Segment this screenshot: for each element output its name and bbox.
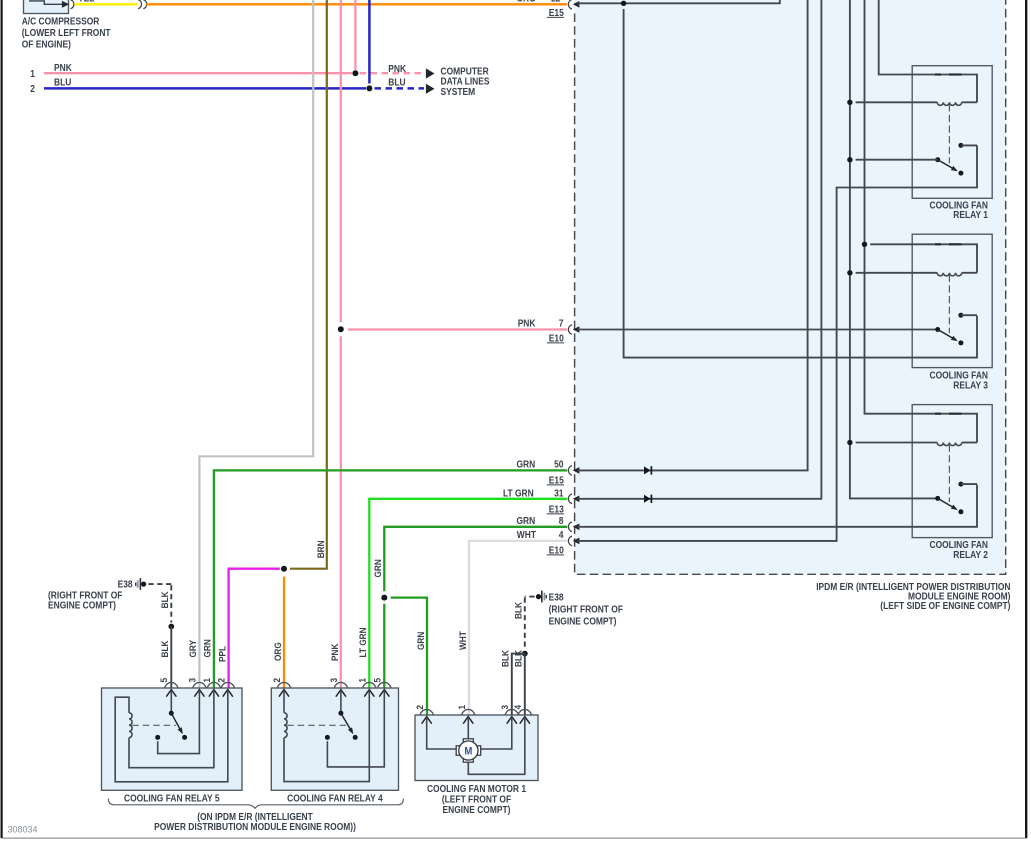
wire WHT pin4 to motor pin1 [469,541,567,715]
motor pin entry x=468.2 [462,709,475,714]
svg-text:PNK: PNK [330,644,341,661]
junction dot GRN [381,595,387,601]
svg-text:ENGINE COMPT): ENGINE COMPT) [443,805,511,816]
svg-text:BLK: BLK [160,591,171,608]
svg-text:7: 7 [559,318,564,329]
svg-text:E38: E38 [118,580,133,591]
svg-text:31: 31 [554,488,564,499]
svg-text:RELAY 1: RELAY 1 [953,210,988,221]
svg-text:POWER DISTRIBUTION MODULE ENGI: POWER DISTRIBUTION MODULE ENGINE ROOM)) [154,822,356,833]
wire relay2 output to GRN8 [578,485,978,527]
svg-text:PNK: PNK [388,64,406,75]
svg-text:BLK: BLK [501,650,512,667]
svg-text:50: 50 [554,459,564,470]
wire BLU pin2 [44,87,366,90]
wire PPL to relay5 pin2 [229,569,280,688]
motor pin entry x=511.8 [505,709,518,714]
svg-text:BRN: BRN [316,540,327,558]
svg-text:BLK: BLK [514,650,525,667]
svg-text:PNK: PNK [54,63,72,74]
wire GRN pin8 to relay4 pin5 and motor pin2 [384,527,567,592]
junction dot PNK pin7 [338,326,344,332]
relay5 coil K5 and staples [115,690,228,782]
svg-text:(LEFT FRONT OF: (LEFT FRONT OF [442,794,511,805]
wire battery feed down to relay3 output rail [624,9,977,358]
relay K2 core bars [935,413,941,415]
wire PNK vertical from top [354,0,356,70]
wire PNK pin1 [44,72,352,74]
wire PNK from top to relay4 pin3 [340,0,342,322]
svg-text:22: 22 [551,0,561,4]
svg-text:WHT: WHT [517,530,536,541]
svg-text:2: 2 [415,705,426,710]
svg-text:(LEFT SIDE OF ENGINE COMPT): (LEFT SIDE OF ENGINE COMPT) [880,601,1010,612]
svg-text:ENGINE COMPT): ENGINE COMPT) [48,601,116,612]
wire LT GRN pin31 to relay4 pin1 [369,499,567,688]
svg-text:2: 2 [217,678,228,683]
svg-text:COOLING FAN MOTOR 1: COOLING FAN MOTOR 1 [427,784,527,795]
relay K3 junction dots on supply rail [847,270,852,275]
wire PNK pin7 branch [348,328,567,330]
wire common supply rail x=849.9 [850,0,938,498]
relay K3 box COOLING FAN RELAY 3 [912,234,992,367]
relay K2 junction dots on supply rail [847,440,852,445]
IPDM E/R block (dashed) [575,0,1006,574]
relay5 pin entry x=171.3 [165,682,178,687]
svg-text:LT GRN: LT GRN [503,488,534,499]
wire relay3 top feed [870,244,977,272]
motor M1 symbol [456,739,481,762]
wire BLK dashed down (right) [525,596,535,598]
wire BLU vertical from top [368,0,371,84]
svg-text:(LOWER LEFT FRONT: (LOWER LEFT FRONT [22,28,111,39]
svg-text:GRY: GRY [188,639,199,657]
relay K1 junction dots on supply rail [847,100,852,105]
svg-text:LT GRN: LT GRN [358,627,369,657]
wire GRN pin50 to relay5 pin1 [214,470,567,688]
relay4 coil-switch link (dashed) [287,724,346,726]
svg-text:PNK: PNK [518,318,536,329]
ground connector E38 left [135,583,137,586]
relay4 coil K4 [283,690,285,713]
junction dot relay3 feed [862,242,867,247]
svg-text:3: 3 [500,705,511,710]
relay K3 core bars [935,243,941,245]
svg-text:ENGINE COMPT): ENGINE COMPT) [549,617,617,628]
dashed BLU to computer data lines [375,87,425,90]
diode on GRN50 rail [644,466,651,474]
relay4 pin entry x=340.9 [334,682,347,687]
svg-text:3: 3 [187,678,198,683]
arrow to computer data lines (PNK) [426,68,435,78]
motor COOLING FAN MOTOR 1 box [415,715,538,781]
relay K2 box COOLING FAN RELAY 2 [912,405,992,538]
relay K1 box COOLING FAN RELAY 1 [912,66,992,199]
relay K3 upper contact [958,313,963,318]
motor pin entry x=524.8 [518,709,531,714]
relay4 pin entry x=284 [277,682,290,687]
page right border [1025,0,1027,838]
svg-text:308034: 308034 [8,824,38,834]
svg-text:ORG: ORG [273,642,284,661]
A/C compressor box [24,0,69,14]
svg-text:1: 1 [30,69,35,80]
svg-text:SYSTEM: SYSTEM [441,87,476,98]
svg-text:2: 2 [30,84,35,95]
relay1 common feed [856,159,938,161]
relay K1 switch pivot [935,157,940,162]
svg-text:1: 1 [457,704,468,709]
relay4 contact to pin5 [325,735,330,740]
border patch at E15 entry [574,0,575,13]
A/C compressor internal wire + arrow [29,1,64,4]
relay K1 upper contact [958,143,963,148]
wire coil feed rail x=864.5 to relay2 [865,0,978,443]
svg-text:A/C COMPRESSOR: A/C COMPRESSOR [22,16,100,27]
relay K1 coil [856,101,938,103]
svg-text:OF ENGINE): OF ENGINE) [22,39,71,50]
brace under relays 4 and 5 [108,799,403,809]
relay4 pin entry x=384.3 [378,682,391,687]
relay K2 upper contact [958,482,963,487]
relay COOLING FAN RELAY 4 box [271,688,398,790]
relay4 switch [340,690,342,713]
relay K1 coil-switch link (dashed) [948,104,950,163]
relay4 pin entry x=369.3 [363,682,376,687]
IPDM top feed wire from E15 pin22 [578,0,780,3]
junction dot PNK [352,70,358,76]
svg-text:GRN: GRN [416,632,427,650]
relay COOLING FAN RELAY 5 box [102,688,243,790]
page bottom rule [3,837,1026,839]
junction dot BLU [366,85,372,91]
wire BLK dashed to junction (left) [149,583,172,585]
svg-text:3: 3 [329,678,340,683]
arrow to computer data lines (BLU) [426,84,435,94]
junction dot BRN/PPL/ORG [281,566,287,572]
svg-text:COOLING FAN RELAY 4: COOLING FAN RELAY 4 [287,793,383,804]
connector pin50 E15 [568,466,572,476]
wire BRN from top [290,0,327,569]
svg-text:GRN: GRN [517,459,536,470]
connector pin31 E13 [568,494,572,504]
relay K2 switch pivot [935,496,940,501]
svg-text:COOLING FAN RELAY 5: COOLING FAN RELAY 5 [124,793,220,804]
wire GRY from top to relay5 pin3 [199,0,313,688]
svg-text:BLU: BLU [388,78,405,89]
diode on LTGRN31 rail [644,495,651,503]
wire relay1 top feed x=878.7 [879,0,977,102]
relay5 pin entry x=227.8 [221,682,234,687]
wire BLK to motor pin4 [524,654,526,715]
svg-text:BLK: BLK [160,640,171,657]
wire LTGRN31 rail (vertical x=821.4) [578,0,822,499]
svg-text:RELAY 3: RELAY 3 [953,380,988,391]
relay K1 core bars [935,73,941,75]
connector ) at A/C compressor output [71,0,74,9]
wire ORG segment [146,3,567,5]
svg-text:E38: E38 [549,592,564,603]
motor pin entry x=426.7 [420,709,433,714]
svg-text:GRN: GRN [373,559,384,577]
inline connector )) [138,0,141,9]
svg-text:ORG: ORG [517,0,537,4]
wire BLK stub to motor pin3 [512,654,525,715]
wire PNK7 to relay3 common [578,329,938,331]
relay5 pin entry x=199.4 [193,682,206,687]
svg-text:GRN: GRN [203,639,214,657]
connector E15 at IPDM [568,0,572,9]
svg-text:M: M [464,745,472,757]
connector pin7 E10 [568,325,572,335]
relay K2 coil-switch link (dashed) [948,445,950,503]
relay K3 coil-switch link (dashed) [948,275,950,333]
svg-text:PPL: PPL [218,646,229,662]
svg-text:BLU: BLU [54,78,71,89]
svg-text:1: 1 [202,677,213,682]
svg-text:WHT: WHT [458,631,469,650]
relay5 switch [170,690,172,713]
dashed PNK to computer data lines [360,72,425,74]
svg-text:GRN: GRN [517,516,536,527]
relay5 contact to pin3 [155,735,160,740]
svg-text:4: 4 [513,704,524,709]
svg-text:RELAY 2: RELAY 2 [953,550,988,561]
motor internal wires [427,717,457,749]
svg-text:BLK: BLK [514,602,525,619]
wire GRN50 rail (vertical x=807.6) [578,0,808,470]
svg-text:4: 4 [559,530,564,541]
wire relay1 output to WHT4 [578,145,978,541]
svg-text:5: 5 [159,677,170,682]
page left border [1,0,3,838]
relay5 coil-switch link (dashed) [132,724,176,726]
ground connector E38 right [545,595,547,598]
relay K2 coil [856,442,938,444]
svg-text:(RIGHT FRONT OF: (RIGHT FRONT OF [549,605,623,616]
relay K3 coil [856,272,938,274]
wire BLK solid to relay5 pin5 [170,627,172,689]
connector pin4 E10 [568,536,572,546]
svg-text:8: 8 [559,516,564,527]
relay5 pin entry x=213.9 [207,682,220,687]
relay K3 switch pivot [935,327,940,332]
svg-text:2: 2 [272,678,283,683]
junction dot top feed [621,1,626,6]
connector pin8 [568,522,572,532]
svg-text:YEL: YEL [78,0,94,4]
wire ORG to relay4 pin2 [283,577,285,688]
wire YEL segment [74,3,137,5]
svg-text:1: 1 [357,677,368,682]
svg-text:5: 5 [372,677,383,682]
